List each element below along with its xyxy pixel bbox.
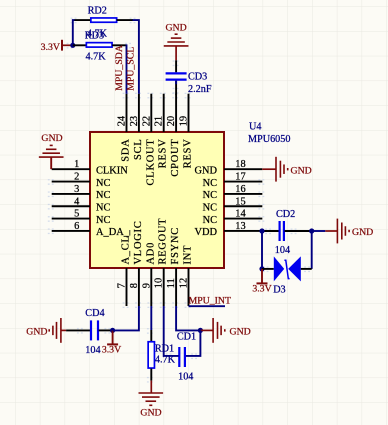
svg-text:VDD: VDD	[194, 227, 217, 238]
svg-text:7: 7	[117, 283, 128, 288]
wire pin 9 down to RD1	[150, 306, 152, 330]
svg-text:15: 15	[235, 196, 245, 207]
ground GND (above CD3)	[164, 23, 189, 61]
svg-text:CD4: CD4	[85, 308, 104, 319]
wire D3 cathode to right riser	[301, 268, 312, 270]
svg-text:18: 18	[235, 159, 245, 170]
svg-text:12: 12	[179, 278, 190, 288]
svg-text:10: 10	[154, 278, 165, 288]
svg-text:RESV: RESV	[158, 139, 169, 169]
svg-text:19: 19	[179, 116, 190, 126]
pin 18 GND	[194, 159, 262, 176]
svg-text:14: 14	[235, 209, 246, 220]
diode D3 (bidirectional TVS)	[273, 256, 301, 295]
svg-text:GND: GND	[352, 227, 373, 238]
power port 3.3V (below D3)	[252, 269, 271, 295]
svg-text:NC: NC	[96, 178, 111, 189]
svg-text:GND: GND	[165, 23, 186, 34]
pin 3 NC	[52, 184, 111, 201]
svg-text:U4: U4	[249, 122, 261, 133]
resistor RD1	[148, 342, 175, 368]
junction (VDD left)	[259, 228, 264, 233]
svg-text:CLKOUT: CLKOUT	[145, 139, 156, 186]
svg-text:RD2: RD2	[88, 5, 107, 16]
svg-text:GND: GND	[230, 327, 251, 338]
wire pin 13 to CD2	[262, 230, 279, 232]
pin 17 NC	[203, 172, 263, 189]
wire CD3 to pin 20	[175, 81, 177, 95]
svg-text:MPU_SDA: MPU_SDA	[114, 45, 125, 91]
svg-text:21: 21	[154, 116, 165, 126]
wire RD2 to pin 23 (MPU_SCL)	[117, 19, 133, 21]
svg-text:13: 13	[235, 221, 245, 232]
pin 2 NC	[52, 172, 111, 189]
pin 6 A_DA_	[52, 221, 130, 238]
wire GND to CD4	[66, 329, 90, 331]
node A junction	[70, 43, 75, 48]
pin 23 SCL	[129, 94, 144, 160]
svg-text:AD0: AD0	[145, 242, 156, 265]
capacitor CD2	[275, 209, 295, 256]
wire CD4 to 3.3V junction	[99, 329, 113, 331]
svg-text:9: 9	[141, 283, 152, 288]
pin 10 REGOUT	[154, 218, 169, 306]
wire 3.3V to node A	[62, 44, 73, 46]
svg-text:CD2: CD2	[276, 209, 295, 220]
svg-text:NC: NC	[203, 215, 218, 226]
svg-text:23: 23	[129, 116, 140, 126]
wire junction right to GND	[312, 230, 326, 232]
wire VDD right junction down to D3	[311, 231, 313, 269]
svg-text:NC: NC	[96, 202, 111, 213]
pin 21 RESV	[154, 94, 169, 169]
wire junction down to CD1	[186, 330, 201, 356]
svg-text:104: 104	[85, 345, 100, 356]
pin 8 VLOGIC	[129, 220, 144, 306]
svg-text:GND: GND	[26, 326, 47, 337]
svg-text:D3: D3	[273, 285, 285, 296]
ground GND (right of CD1 junction)	[200, 318, 250, 343]
wire pin 11 FSYNC down and right	[176, 306, 200, 330]
svg-text:4.7K: 4.7K	[86, 52, 107, 63]
svg-text:8: 8	[129, 283, 140, 288]
svg-text:MPU_SCL: MPU_SCL	[125, 47, 136, 91]
svg-text:3: 3	[74, 184, 79, 195]
svg-text:3.3V: 3.3V	[41, 42, 60, 53]
wire CD2 to junction right	[285, 230, 312, 232]
pin 15 NC	[203, 196, 263, 213]
svg-text:RESV: RESV	[183, 139, 194, 169]
pin 13 VDD	[194, 221, 262, 238]
wire junction to pin 8 VLOGIC	[113, 306, 139, 330]
ground GND (right of CD2)	[325, 219, 373, 244]
ground GND (right of pin 18)	[262, 157, 311, 182]
pin 12 INT	[179, 245, 194, 306]
pin 5 NC	[52, 209, 111, 226]
svg-text:GND: GND	[194, 165, 217, 176]
svg-text:FSYNC: FSYNC	[170, 227, 181, 265]
pin 1 CLKIN	[52, 159, 129, 176]
svg-text:CPOUT: CPOUT	[170, 139, 181, 177]
pin 20 CPOUT	[166, 94, 181, 177]
pin 22 CLKOUT	[141, 94, 156, 186]
pin 19 RESV	[179, 94, 194, 169]
wire VDD left junction down to D3	[261, 231, 263, 269]
svg-text:NC: NC	[203, 178, 218, 189]
wire GND to pin 1	[50, 157, 52, 169]
ground GND (left of CD4)	[26, 318, 66, 343]
svg-text:5: 5	[74, 209, 79, 220]
wire GND to CD3	[175, 60, 177, 72]
junction (VDD right)	[309, 228, 314, 233]
svg-text:17: 17	[235, 172, 245, 183]
svg-text:MPU_INT: MPU_INT	[189, 296, 231, 307]
svg-text:11: 11	[166, 278, 177, 288]
IC U4 MPU6050 body	[90, 132, 224, 268]
pin 16 NC	[203, 184, 263, 201]
svg-text:GND: GND	[41, 133, 62, 144]
svg-text:RD3: RD3	[85, 31, 104, 42]
wire node A up to RD2	[73, 20, 75, 45]
svg-text:NC: NC	[203, 202, 218, 213]
svg-text:20: 20	[166, 116, 177, 126]
wire to D3 anode	[262, 268, 274, 270]
svg-text:CD3: CD3	[188, 71, 207, 82]
ground GND (below RD1)	[139, 381, 164, 419]
wire CD1 to pin 10 REGOUT	[164, 306, 179, 356]
pin 4 NC	[52, 196, 111, 213]
hotspot grid markers	[48, 18, 310, 383]
ground GND (above pin 1)	[39, 133, 64, 157]
capacitor CD1	[177, 331, 196, 382]
svg-text:6: 6	[74, 221, 79, 232]
svg-text:3.3V: 3.3V	[252, 284, 271, 295]
junction (FSYNC/CD1/GND)	[198, 328, 203, 333]
svg-text:INT: INT	[183, 245, 194, 265]
svg-text:3.3V: 3.3V	[102, 344, 121, 355]
svg-text:MPU6050: MPU6050	[248, 134, 290, 145]
svg-text:GND: GND	[291, 165, 312, 176]
svg-text:1: 1	[74, 159, 79, 170]
svg-text:CLKIN: CLKIN	[96, 165, 128, 176]
svg-text:104: 104	[178, 371, 193, 382]
wire RD3 to pin 24 (MPU_SDA)	[112, 44, 126, 46]
svg-text:REGOUT: REGOUT	[158, 218, 169, 265]
svg-text:24: 24	[117, 115, 128, 126]
svg-text:VLOGIC: VLOGIC	[133, 220, 144, 264]
svg-text:A_CL_: A_CL_	[121, 229, 132, 264]
pin 11 FSYNC	[166, 227, 181, 306]
resistor RD3	[73, 31, 112, 63]
pin 7 A_CL_	[117, 229, 132, 306]
svg-text:4: 4	[74, 196, 80, 207]
svg-text:2: 2	[74, 172, 79, 183]
svg-text:2.2nF: 2.2nF	[188, 84, 212, 95]
svg-text:22: 22	[141, 116, 152, 126]
svg-text:NC: NC	[96, 190, 111, 201]
svg-text:SDA: SDA	[121, 139, 132, 162]
svg-text:SCL: SCL	[133, 139, 144, 160]
svg-text:104: 104	[275, 245, 290, 256]
svg-text:NC: NC	[96, 215, 111, 226]
capacitor CD4	[85, 308, 104, 356]
junction (D3 left)	[259, 266, 264, 271]
wire RD1 to GND	[150, 369, 152, 381]
pin 9 AD0	[141, 242, 156, 306]
power port 3.3V (left)	[41, 40, 62, 53]
svg-text:CD1: CD1	[177, 331, 196, 342]
resistor RD2	[87, 5, 117, 39]
power port 3.3V (below CD4 junction)	[102, 330, 121, 355]
svg-text:16: 16	[235, 184, 245, 195]
wire pin 12 INT with net label	[189, 305, 226, 307]
pin 24 SDA	[117, 94, 132, 162]
junction (3.3V rail)	[110, 328, 115, 333]
capacitor CD3	[166, 71, 212, 95]
pin 14 NC	[203, 209, 263, 226]
svg-text:NC: NC	[203, 190, 218, 201]
svg-text:GND: GND	[140, 407, 161, 418]
